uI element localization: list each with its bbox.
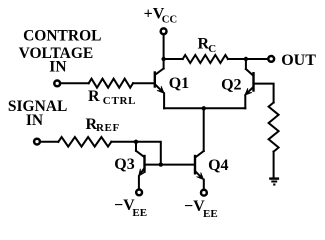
- wire: [244, 95, 246, 108]
- node: Vcc rail junction: [161, 57, 165, 61]
- terminal -Vee (Q4): [201, 190, 207, 196]
- wire: [163, 34, 165, 68]
- transistor Q2: [252, 73, 254, 90]
- svg-text:REF: REF: [96, 122, 120, 134]
- wire: [273, 152, 275, 179]
- transistor Q4: [194, 156, 196, 173]
- wire: [60, 82, 89, 84]
- wire: [203, 180, 205, 189]
- wire: Q3-Q4 base rail: [145, 164, 196, 166]
- svg-text:IN: IN: [49, 59, 66, 76]
- svg-text:−V: −V: [184, 198, 205, 215]
- svg-text:CONTROL: CONTROL: [23, 28, 101, 45]
- transistor Q1: [154, 73, 156, 87]
- svg-text:OUT: OUT: [281, 52, 316, 69]
- wire: [163, 93, 165, 108]
- wire: [228, 58, 268, 60]
- svg-text:EE: EE: [203, 208, 218, 220]
- svg-text:CC: CC: [162, 15, 177, 26]
- resistor R_C: [183, 55, 228, 63]
- wire: [138, 176, 140, 188]
- wire: [254, 84, 274, 103]
- resistor (Q2 base to ground): [269, 103, 279, 152]
- svg-text:Q4: Q4: [208, 157, 228, 174]
- node: Q3 collector/base tie: [134, 140, 138, 144]
- svg-text:EE: EE: [132, 207, 147, 219]
- transistor Q3: [143, 156, 145, 172]
- wire: [111, 141, 136, 143]
- wire: [133, 82, 155, 84]
- ground: [269, 177, 279, 179]
- terminal +Vcc: [161, 28, 167, 34]
- svg-text:Q3: Q3: [114, 156, 134, 173]
- wire: [164, 58, 183, 60]
- svg-text:C: C: [208, 43, 216, 55]
- terminal: CONTROL VOLTAGE IN: [54, 81, 60, 87]
- wire: emitter rail: [164, 107, 245, 109]
- svg-text:CTRL: CTRL: [103, 95, 136, 107]
- svg-text:IN: IN: [26, 112, 43, 129]
- svg-text:Q1: Q1: [169, 75, 189, 92]
- terminal OUT: [268, 56, 274, 62]
- node: tail junction: [202, 106, 206, 110]
- terminal -Vee (Q3): [136, 190, 142, 196]
- wire: [136, 142, 161, 165]
- resistor R_REF: [58, 137, 111, 147]
- svg-text:Q2: Q2: [221, 76, 241, 93]
- node: base rail junction: [159, 162, 163, 166]
- wire: [40, 141, 58, 143]
- resistor R_CTRL: [89, 79, 133, 88]
- terminal: SIGNAL IN: [34, 139, 40, 145]
- svg-text:R: R: [88, 88, 100, 105]
- node: Q2 collector junction: [244, 57, 248, 61]
